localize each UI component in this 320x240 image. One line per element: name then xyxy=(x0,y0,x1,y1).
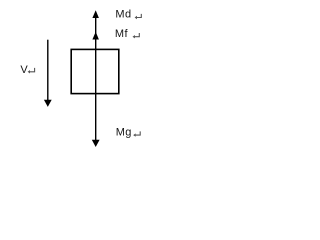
arrowhead Mg (down) xyxy=(92,140,100,147)
label V xyxy=(20,64,28,76)
return mark after V xyxy=(28,68,35,74)
arrow V (left, downward) xyxy=(44,40,52,107)
return mark after Mf xyxy=(133,33,140,38)
arrowhead Mf (up) xyxy=(92,32,99,40)
label Mg xyxy=(116,127,132,139)
arrowhead Md (up) xyxy=(92,10,99,18)
label Md xyxy=(115,9,131,21)
svg-text:Mf: Mf xyxy=(115,28,129,40)
return mark after Mg xyxy=(133,131,140,136)
svg-text:Mg: Mg xyxy=(116,127,132,139)
return mark after Md xyxy=(135,14,142,19)
box (body/mass rectangle) xyxy=(71,49,119,93)
svg-text:V: V xyxy=(20,64,28,76)
label Mf xyxy=(115,28,129,40)
svg-text:Md: Md xyxy=(115,9,131,21)
wire (central vertical force line) xyxy=(95,14,97,142)
